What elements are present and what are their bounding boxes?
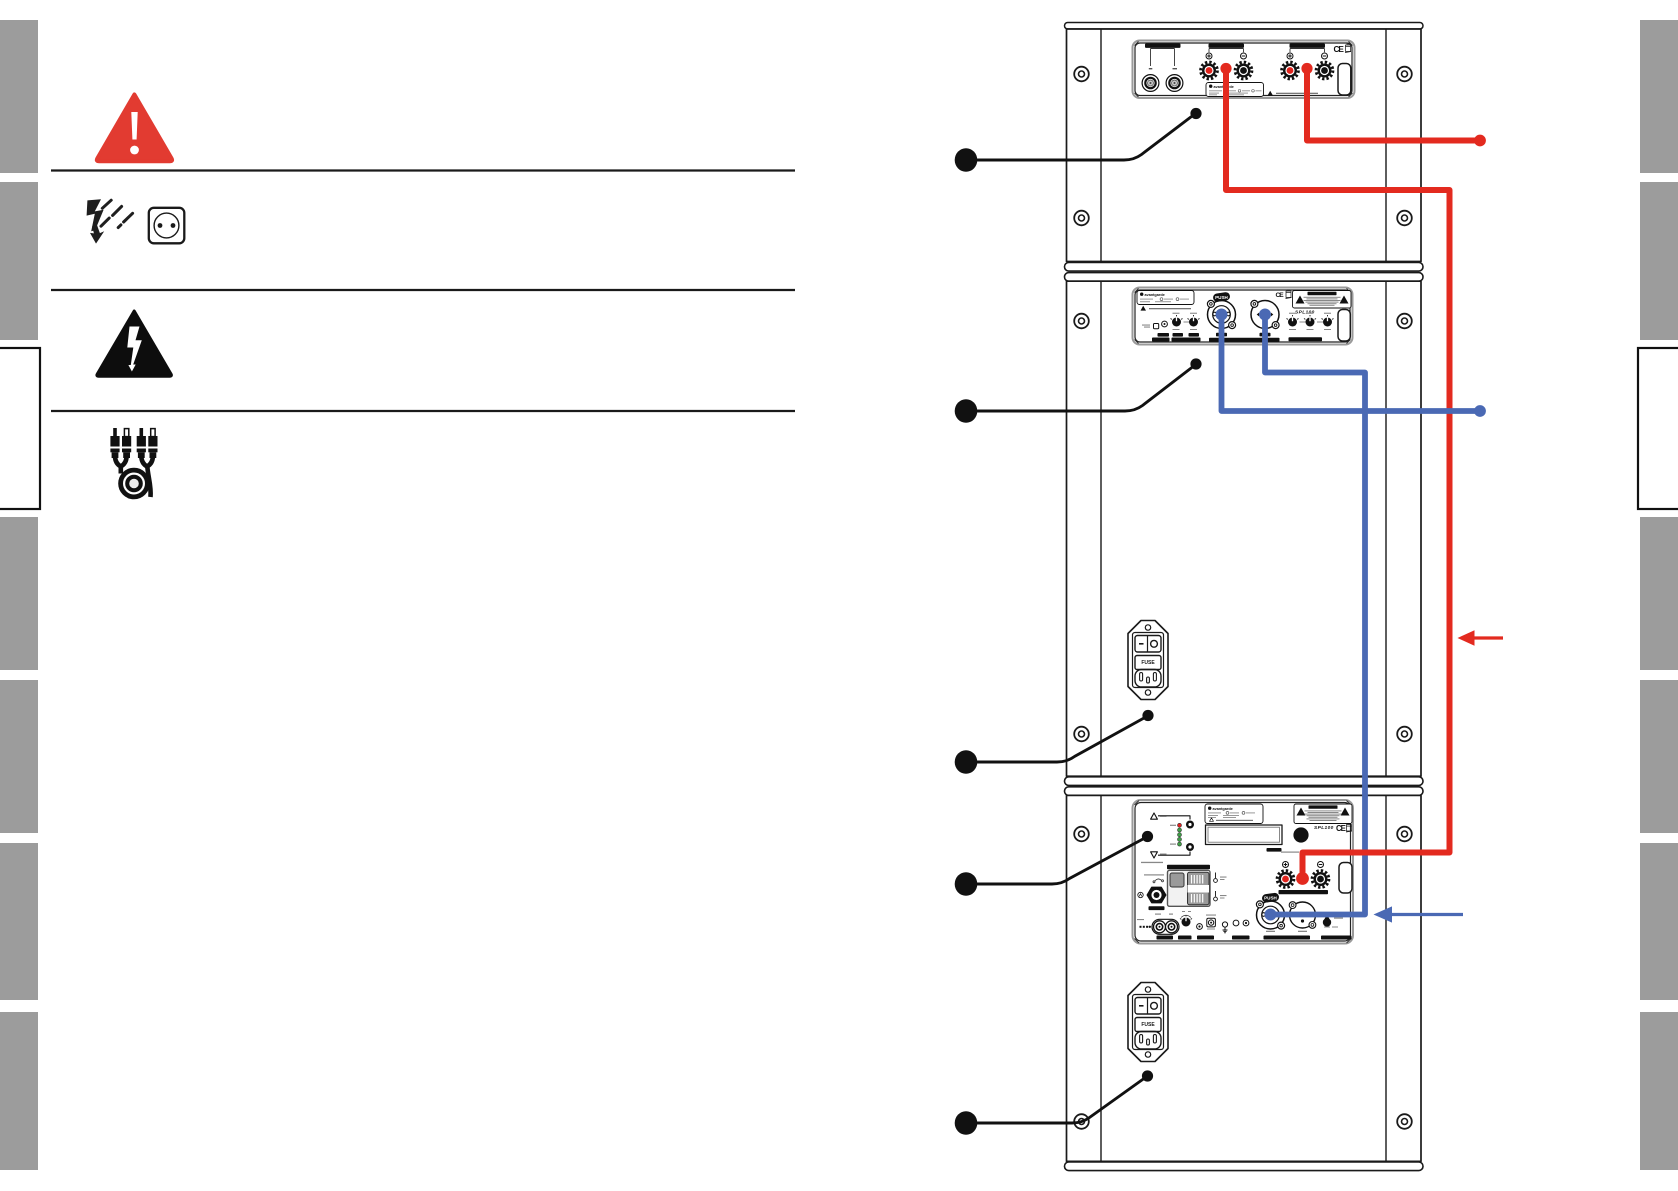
panel3 speaker level note (1281, 852, 1299, 853)
panel3 speakon connector (1147, 887, 1165, 902)
panel1 slot (1338, 64, 1351, 96)
panel3 switch sym 2 (1214, 891, 1227, 901)
icon lightning-hazard (87, 199, 133, 243)
icon power socket (149, 208, 185, 244)
red wire short run to right edge (1307, 66, 1477, 141)
panel2 knob mid (1171, 315, 1183, 327)
box2 right rail line (1385, 281, 1387, 776)
blue dot xlr box3 (1265, 909, 1277, 921)
rca plug 4 (white tip) (148, 429, 157, 458)
panel3 level knob (1180, 911, 1192, 927)
box1 top cap (1065, 23, 1424, 30)
panel1 plus1 (1206, 53, 1212, 59)
panel3 upl up indicator (1151, 813, 1158, 819)
tab L4 (0, 517, 38, 670)
panel3 (1133, 800, 1354, 944)
rca cable Y right (141, 457, 153, 467)
panel1 post black 2 (1316, 62, 1333, 79)
panel3 post black (1312, 871, 1329, 888)
panel3 bin icon (1346, 824, 1352, 833)
tab R6 (1640, 843, 1678, 1000)
panel2 label mute (1158, 333, 1170, 337)
svg-text:CE: CE (1334, 45, 1345, 54)
panel3 push tag (1261, 892, 1279, 903)
panel1 post black 1 (1235, 62, 1252, 79)
callout 1 line (977, 117, 1192, 161)
tab L7 (0, 1012, 38, 1170)
separator line 2 (51, 289, 795, 291)
warning triangle black (shock) (97, 311, 171, 376)
panel2 warn note (1141, 306, 1147, 311)
panel3 trim knob down (1186, 843, 1194, 851)
box2 left rail line (1100, 281, 1102, 776)
panel1 (1133, 41, 1355, 99)
panel3 trim knob up (1186, 821, 1194, 829)
box2 top cap (1065, 273, 1424, 282)
panel3 plus (1283, 862, 1289, 868)
panel3 speakon label (1149, 906, 1165, 910)
panel3 switch sym 1 (1214, 873, 1227, 883)
panel3 plate (1133, 800, 1354, 944)
svg-text:PUSH: PUSH (1215, 295, 1228, 300)
WIRES (1216, 63, 1504, 923)
separator line 3 (51, 410, 795, 412)
panel3 post red (1277, 871, 1294, 888)
panel3 minus (1318, 862, 1324, 868)
panel3 voltage selector frame (1168, 870, 1211, 906)
callout 2 big dot (955, 399, 978, 423)
panel1 bracket3 (1290, 49, 1325, 53)
box1 body (1067, 29, 1422, 262)
box2 iec inlet (1128, 621, 1168, 700)
panel3 bottom labels (1157, 936, 1352, 940)
panel1 minus2 (1322, 53, 1328, 59)
box2 body (1067, 281, 1422, 776)
box2 screws (1074, 314, 1089, 329)
panel2 label service gain (1152, 338, 1170, 342)
panel2 xlr sublabels (1216, 333, 1227, 337)
svg-text:avantgarde: avantgarde (1145, 293, 1165, 297)
panel3 led column (1170, 823, 1182, 846)
box3 body (1067, 795, 1422, 1161)
panel3 label speaker level input (1279, 890, 1329, 894)
rca cable Y left (115, 457, 127, 467)
box1 bottom cap (1065, 263, 1424, 272)
callout 3 line (977, 718, 1144, 762)
red arrow (1458, 630, 1504, 646)
box1 screws (1074, 67, 1089, 82)
SPEAKER STACK (1065, 23, 1424, 1171)
panel3 slot (1339, 863, 1352, 894)
box3 top cap (1065, 787, 1424, 796)
callout 5 line (977, 1079, 1144, 1124)
panel2 plate (1133, 288, 1353, 345)
rca plug 1 (solid) (110, 428, 119, 458)
panel3 xlr sublabels (1266, 931, 1275, 932)
panel3 display window (1206, 825, 1283, 845)
panel2 xlr input (1207, 300, 1235, 328)
panel1 rca jack 1 (1142, 75, 1159, 92)
panel3 phones jack (1197, 924, 1203, 930)
rca cable right drop (147, 464, 151, 497)
tab L1 (0, 20, 38, 173)
tab R5 (1640, 680, 1678, 833)
red wire upper run (post1 down, right, partway down) (1226, 66, 1450, 500)
svg-text:SPL100: SPL100 (1295, 310, 1315, 316)
box3 left rail line (1100, 795, 1102, 1161)
panel3 warning block (1294, 804, 1352, 824)
panel2 warning block (1293, 291, 1352, 309)
panel1 warn note (1268, 91, 1319, 96)
panel2 label total gain (1289, 337, 1323, 341)
tab R4 (1640, 517, 1678, 670)
icon rca-cable (110, 428, 157, 497)
panel3 mute knob (1323, 915, 1343, 928)
blue wire end dot (1474, 405, 1486, 417)
tab L6 (0, 843, 38, 1000)
svg-text:CE: CE (1336, 824, 1346, 833)
callout 5 small dot (1142, 1070, 1153, 1081)
RIGHT-TABS (1638, 20, 1678, 1170)
panel3 ground symbol (1222, 922, 1227, 933)
panel2 gain knob 1 (1287, 315, 1299, 327)
panel2 gain knob 3 (1322, 315, 1334, 327)
panel1 avantgarde label (1206, 83, 1264, 97)
panel1 plus2 (1287, 53, 1293, 59)
CALLOUTS (955, 108, 1202, 1135)
panel1 post red 1 (1201, 62, 1218, 79)
svg-text:SPL100: SPL100 (1314, 825, 1334, 831)
callout 5 big dot (955, 1111, 978, 1135)
box3 iec inlet (1128, 983, 1168, 1062)
svg-text:avantgarde: avantgarde (1213, 807, 1233, 811)
tab L2 (0, 182, 38, 340)
blue arrow (1374, 906, 1464, 922)
panel2 reset button (1154, 324, 1159, 329)
panel2 label high (1189, 333, 1200, 337)
red wire cap dot post2 (1301, 63, 1312, 74)
red wire end dot (1474, 135, 1486, 147)
panel1 bracket (1151, 49, 1175, 67)
panel2 gain knob 2 (1304, 315, 1316, 327)
panel1 bracket2 (1209, 49, 1244, 53)
rca plug 2 (white tip) (122, 429, 131, 458)
box1 left rail line (1100, 29, 1102, 262)
panel3 trigger jacks (1233, 920, 1239, 926)
panel2 push tag (1212, 292, 1230, 303)
red wire cap dot post1 (1220, 63, 1231, 74)
blue wire xlr1 to right edge (1222, 312, 1478, 411)
tab R1 (1640, 20, 1678, 173)
callout 4 small dot (1142, 831, 1153, 842)
callout 4 big dot (955, 872, 978, 896)
box2 bottom cap (1065, 777, 1424, 786)
blue dot xlr1 box2 (1216, 309, 1228, 321)
tab L5 (0, 680, 38, 833)
panel3 xlr output (1289, 902, 1316, 929)
callout 1 big dot (955, 148, 978, 172)
panel3 fuse note icon (1144, 874, 1164, 883)
panel2 bin icon (1286, 290, 1292, 299)
callout 2 small dot (1190, 358, 1201, 369)
panel2 slot (1338, 310, 1350, 342)
rca coil (121, 470, 148, 497)
separator line 1 (51, 169, 795, 171)
red terminal dot box3 (1296, 872, 1309, 885)
panel3 circled A (1138, 892, 1143, 897)
LEFT-TABS (0, 20, 40, 1170)
box1 right rail line (1385, 29, 1387, 262)
tab R2 (1640, 182, 1678, 340)
panel3 upl down indicator (1151, 852, 1158, 858)
callout 1 small dot (1190, 108, 1201, 119)
panel3 sub out jack (1206, 915, 1216, 930)
panel2 xlr output (1251, 300, 1279, 328)
panel1 rca jack 2 (1166, 75, 1183, 92)
panel1 post red 2 (1282, 62, 1299, 79)
svg-text:PUSH: PUSH (1264, 896, 1277, 901)
red wire lower run into box3 post (1303, 500, 1450, 873)
blue wire xlr2 down to box3 xlr (1265, 312, 1365, 915)
panel1 bin icon (1345, 44, 1351, 53)
tab L3 current (white) (0, 348, 40, 509)
box3 bottom cap (1065, 1162, 1424, 1171)
panel3 rca in out (1152, 914, 1179, 935)
tab R3 current (white) (1638, 348, 1678, 509)
box3 right rail line (1385, 795, 1387, 1161)
panel1 label AMP ADAPTER (1145, 44, 1181, 48)
panel1 minus1 (1241, 53, 1247, 59)
panel2 label balanced input (1209, 338, 1280, 342)
panel3 ac dashes (1137, 919, 1151, 928)
panel3 xlr input (1256, 901, 1284, 929)
panel1 plate (1133, 41, 1355, 99)
panel3 big knob (1293, 827, 1308, 842)
callout 4 line (977, 839, 1143, 884)
panel2 knob high (1188, 315, 1200, 327)
panel1 label sub (1290, 44, 1326, 48)
rca plug 3 (solid) (137, 428, 146, 458)
tab R7 (1640, 1012, 1678, 1170)
panel3 avantgarde label (1205, 804, 1263, 824)
callout 3 big dot (955, 750, 978, 774)
panel2 (1133, 288, 1353, 345)
panel3 bar under display (1267, 848, 1282, 852)
panel2 trim pot (1162, 321, 1168, 327)
callout 3 small dot (1142, 710, 1153, 721)
box3 screws (1074, 827, 1089, 842)
panel3 bracket lines (1158, 816, 1190, 855)
blue dot xlr2 box2 (1259, 309, 1271, 321)
rca cable left drop (119, 464, 124, 474)
warning triangle red (97, 95, 172, 162)
callout 2 line (977, 367, 1193, 411)
panel2 label mid (1173, 333, 1184, 337)
panel2 avantgarde label (1137, 291, 1194, 305)
panel1 label midbass (1209, 44, 1245, 48)
panel3 mains voltage label (1141, 862, 1163, 863)
